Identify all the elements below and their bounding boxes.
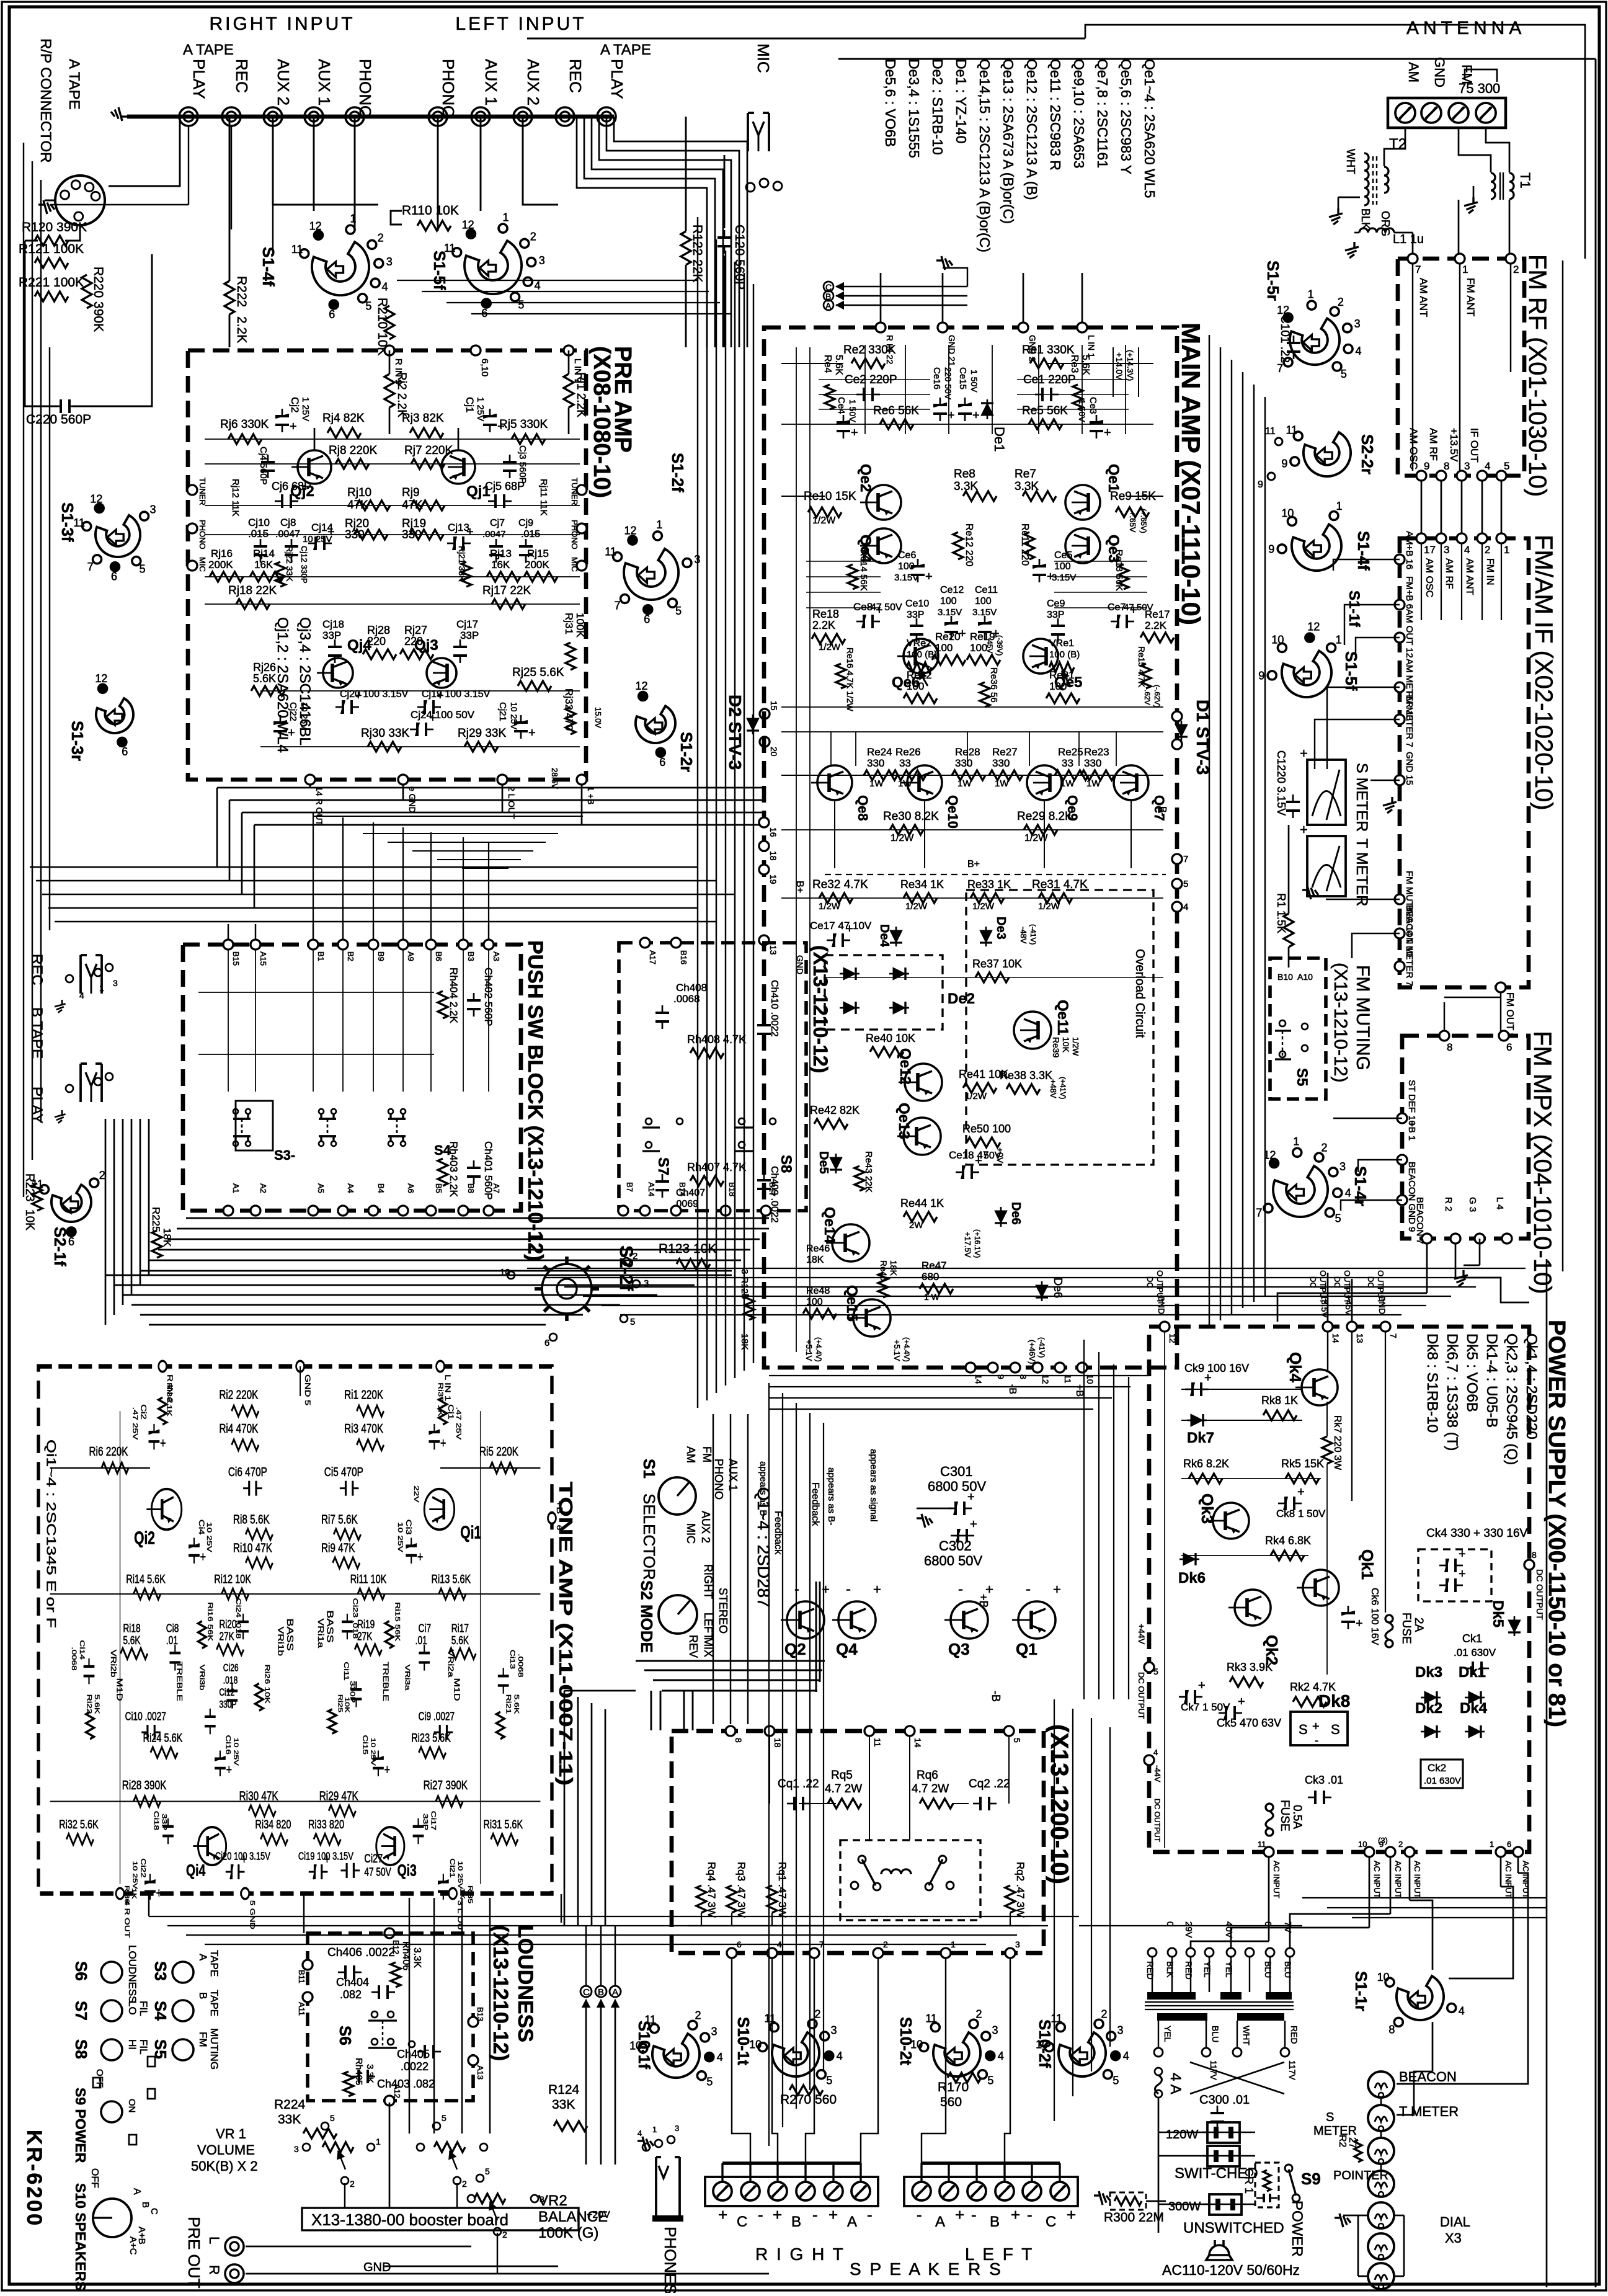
- svg-text:-: -: [958, 1581, 963, 1598]
- svg-text:Ri15 56K: Ri15 56K: [394, 1602, 402, 1641]
- svg-text:S6: S6: [72, 1961, 91, 1981]
- svg-text:S8: S8: [778, 1155, 794, 1173]
- svg-text:R2: R2: [1337, 2135, 1348, 2148]
- svg-text:Feedback: Feedback: [773, 1511, 783, 1555]
- svg-text:A+C: A+C: [128, 2236, 138, 2255]
- svg-text:TREBLE: TREBLE: [381, 1662, 389, 1701]
- svg-text:100K: 100K: [574, 613, 586, 638]
- svg-text:Ce8: Ce8: [853, 601, 873, 613]
- svg-text:VRi1a: VRi1a: [316, 1618, 325, 1648]
- svg-text:.01: .01: [415, 1634, 427, 1647]
- svg-text:16: 16: [768, 827, 778, 837]
- svg-text:A4: A4: [346, 1183, 355, 1193]
- svg-text:Ri35: Ri35: [467, 1885, 474, 1903]
- svg-text:S: S: [1326, 2111, 1334, 2124]
- svg-text:10: 10: [1377, 1971, 1390, 1983]
- svg-text:Ri21: Ri21: [505, 1694, 513, 1714]
- svg-text:5: 5: [826, 2075, 832, 2087]
- svg-text:Ci3: Ci3: [404, 1520, 412, 1535]
- svg-text:M1D: M1D: [115, 1678, 123, 1701]
- svg-text:Ri17: Ri17: [451, 1622, 469, 1634]
- svg-text:AM OSC: AM OSC: [1408, 428, 1419, 469]
- svg-text:Ck1: Ck1: [1462, 1632, 1482, 1645]
- svg-text:Re30 8.2K: Re30 8.2K: [883, 810, 939, 823]
- svg-text:+: +: [200, 1550, 206, 1565]
- svg-text:+44V: +44V: [1137, 1624, 1147, 1645]
- svg-text:FM+B 6: FM+B 6: [1404, 576, 1415, 609]
- svg-text:+: +: [828, 2205, 838, 2224]
- svg-text:R123 10K: R123 10K: [659, 1242, 716, 1256]
- svg-text:Rj7 220K: Rj7 220K: [404, 444, 453, 457]
- svg-text:Rj17 22K: Rj17 22K: [482, 584, 531, 597]
- svg-text:PHONO: PHONO: [439, 59, 458, 118]
- svg-text:+.65V: +.65V: [1128, 511, 1137, 533]
- svg-text:Rj8 220K: Rj8 220K: [329, 444, 377, 457]
- svg-text:MIC: MIC: [198, 557, 207, 572]
- svg-text:+: +: [1300, 745, 1308, 761]
- svg-text:29V: 29V: [1183, 1921, 1194, 1938]
- svg-text:Ci5 470P: Ci5 470P: [324, 1464, 363, 1479]
- svg-text:+: +: [1238, 1695, 1245, 1709]
- svg-text:FUSE: FUSE: [1278, 1800, 1291, 1831]
- svg-text:+: +: [1204, 1371, 1212, 1385]
- svg-text:S1-4f: S1-4f: [1354, 531, 1373, 571]
- svg-text:33K: 33K: [552, 2098, 575, 2112]
- svg-text:117V: 117V: [1287, 2060, 1297, 2080]
- svg-text:VRi2a: VRi2a: [446, 1650, 455, 1678]
- svg-text:S2 MODE: S2 MODE: [637, 1580, 656, 1653]
- svg-text:S4: S4: [151, 2001, 170, 2021]
- svg-text:+: +: [846, 922, 853, 936]
- svg-text:1/2W: 1/2W: [812, 515, 836, 526]
- svg-text:BASS: BASS: [285, 1618, 296, 1650]
- svg-text:B-: B-: [1157, 806, 1168, 816]
- svg-text:C300 .01: C300 .01: [1199, 2093, 1250, 2107]
- svg-text:MAIN AMP (X07-1110-10): MAIN AMP (X07-1110-10): [1176, 323, 1206, 625]
- svg-text:Qe11: Qe11: [1054, 1000, 1071, 1035]
- svg-text:1W: 1W: [898, 778, 912, 789]
- svg-text:5: 5: [140, 563, 146, 576]
- svg-text:11: 11: [605, 545, 616, 558]
- svg-text:Dk4: Dk4: [1460, 1700, 1488, 1717]
- svg-text:Dk5: Dk5: [1490, 1600, 1506, 1627]
- svg-text:PLAY: PLAY: [608, 59, 626, 99]
- svg-text:FM METER 7: FM METER 7: [1404, 691, 1415, 747]
- svg-text:3: 3: [294, 2144, 299, 2154]
- svg-text:3 L OUT: 3 L OUT: [456, 1900, 464, 1936]
- svg-text:R225: R225: [150, 1207, 162, 1232]
- svg-text:100 (B): 100 (B): [907, 649, 937, 660]
- svg-text:Dk8 : S1RB-10: Dk8 : S1RB-10: [1424, 1333, 1441, 1433]
- svg-text:4: 4: [637, 2129, 642, 2138]
- svg-text:8: 8: [1447, 1041, 1452, 1053]
- svg-text:AM OSC: AM OSC: [1424, 558, 1434, 597]
- svg-text:Re26: Re26: [895, 746, 921, 758]
- svg-text:+B: +B: [977, 1594, 990, 1608]
- svg-text:Rh404 2.2K: Rh404 2.2K: [448, 968, 460, 1023]
- svg-text:+: +: [226, 1763, 232, 1778]
- svg-text:appears as B-: appears as B-: [826, 1467, 837, 1525]
- svg-text:1W: 1W: [1086, 778, 1101, 789]
- svg-text:9: 9: [1258, 669, 1264, 682]
- svg-text:Ri33 820: Ri33 820: [308, 1817, 344, 1831]
- svg-text:R 2: R 2: [1443, 1197, 1454, 1211]
- svg-text:RIGHT INPUT: RIGHT INPUT: [209, 14, 355, 34]
- svg-text:Re29 8.2K: Re29 8.2K: [1017, 810, 1073, 823]
- svg-text:YEL: YEL: [1163, 2026, 1173, 2042]
- svg-text:DC OUTPUT: DC OUTPUT: [1137, 1672, 1146, 1719]
- svg-text:Re12 220: Re12 220: [964, 523, 974, 566]
- svg-text:Re14 56K: Re14 56K: [858, 550, 869, 591]
- svg-text:Ce18 47: Ce18 47: [949, 1149, 988, 1161]
- svg-text:1: 1: [1308, 288, 1314, 300]
- svg-text:Rj9: Rj9: [402, 486, 420, 499]
- svg-text:1/2W: 1/2W: [905, 901, 928, 912]
- svg-text:Re50 100: Re50 100: [962, 1123, 1011, 1135]
- svg-text:VRi2b: VRi2b: [109, 1650, 117, 1678]
- svg-text:2: 2: [1101, 2008, 1108, 2021]
- svg-text:6: 6: [111, 571, 117, 583]
- svg-text:0.5A: 0.5A: [1290, 1805, 1304, 1829]
- svg-text:-.62V: -.62V: [1143, 687, 1152, 705]
- svg-text:Ci16: Ci16: [224, 1735, 233, 1754]
- svg-text:FM MUTING: FM MUTING: [1353, 965, 1373, 1070]
- svg-text:Ri18: Ri18: [123, 1622, 140, 1634]
- svg-text:Ci7: Ci7: [419, 1622, 432, 1634]
- svg-text:Ci8: Ci8: [166, 1622, 179, 1634]
- svg-text:Rj16: Rj16: [211, 548, 233, 559]
- svg-text:12: 12: [462, 218, 474, 231]
- svg-text:BASS: BASS: [325, 1610, 335, 1642]
- svg-text:B13: B13: [476, 2007, 485, 2021]
- svg-text:B TAPE: B TAPE: [29, 1007, 45, 1059]
- svg-text:6: 6: [481, 307, 487, 319]
- svg-text:1K: 1K: [459, 1888, 466, 1899]
- svg-text:Dk3: Dk3: [1415, 1664, 1442, 1681]
- svg-text:S1-1f: S1-1f: [1346, 590, 1362, 628]
- svg-text:Cj7: Cj7: [490, 518, 505, 528]
- svg-text:G 3: G 3: [1467, 1197, 1478, 1212]
- svg-text:Ci26: Ci26: [223, 1663, 239, 1674]
- svg-text:3.15V: 3.15V: [1052, 572, 1076, 583]
- svg-text:(X08-1080-10): (X08-1080-10): [589, 346, 615, 498]
- svg-text:Qe13 : 2SA673 A (B)or(C): Qe13 : 2SA673 A (B)or(C): [1000, 59, 1016, 224]
- svg-text:.01 630V: .01 630V: [1454, 1647, 1496, 1658]
- svg-text:AC INPUT: AC INPUT: [1393, 1861, 1403, 1898]
- svg-text:S1-5r: S1-5r: [1264, 260, 1282, 301]
- svg-text:4: 4: [1459, 2005, 1465, 2017]
- svg-text:11: 11: [873, 1738, 882, 1747]
- svg-text:S10-2t: S10-2t: [897, 2017, 915, 2065]
- svg-text:A2: A2: [259, 1183, 268, 1193]
- svg-text:Ch408: Ch408: [676, 982, 707, 994]
- svg-text:S9 POWER: S9 POWER: [73, 2088, 89, 2163]
- svg-text:S6: S6: [336, 2026, 355, 2045]
- svg-text:Qe15: Qe15: [843, 1285, 860, 1322]
- svg-text:B4: B4: [376, 1183, 386, 1193]
- svg-text:R/P CONNECTOR: R/P CONNECTOR: [37, 38, 54, 162]
- svg-text:RED: RED: [1145, 1961, 1155, 1980]
- svg-text:Rj15: Rj15: [527, 548, 549, 559]
- svg-text:Cj18: Cj18: [322, 618, 344, 630]
- svg-text:A9: A9: [406, 951, 415, 961]
- svg-text:Ci6 470P: Ci6 470P: [228, 1464, 267, 1479]
- svg-text:C: C: [1046, 2214, 1056, 2230]
- svg-text:Ce17 47 10V: Ce17 47 10V: [810, 920, 872, 932]
- svg-text:3.3K: 3.3K: [365, 2064, 375, 2083]
- svg-text:Re38 3.3K: Re38 3.3K: [1000, 1069, 1052, 1082]
- svg-text:A11: A11: [297, 2002, 306, 2016]
- svg-text:3.3K: 3.3K: [1015, 480, 1039, 493]
- svg-text:Dk8: Dk8: [1318, 1691, 1350, 1711]
- svg-text:+: +: [970, 1518, 977, 1531]
- svg-text:Rj5 330K: Rj5 330K: [499, 418, 548, 431]
- svg-text:A12: A12: [393, 2084, 402, 2098]
- svg-text:S3: S3: [151, 1961, 170, 1981]
- svg-text:1/2W: 1/2W: [891, 833, 914, 843]
- svg-text:S10-1t: S10-1t: [734, 2017, 753, 2065]
- svg-text:Qe2: Qe2: [857, 464, 874, 492]
- svg-text:Re42 82K: Re42 82K: [810, 1104, 860, 1116]
- svg-text:1: 1: [376, 2137, 381, 2147]
- svg-text:Ci18: Ci18: [153, 1811, 161, 1830]
- svg-text:R224: R224: [274, 2098, 306, 2112]
- svg-text:11: 11: [1265, 426, 1276, 437]
- svg-text:Re32 4.7K: Re32 4.7K: [812, 878, 868, 891]
- svg-text:(+14.3V): (+14.3V): [1126, 350, 1135, 381]
- svg-text:Rk3 3.9K: Rk3 3.9K: [1227, 1661, 1273, 1673]
- svg-text:Ck2: Ck2: [1428, 1762, 1446, 1774]
- svg-text:Rq2 .47 3W: Rq2 .47 3W: [1015, 1862, 1026, 1918]
- svg-text:+: +: [1297, 1485, 1305, 1499]
- svg-text:7: 7: [1277, 362, 1283, 375]
- svg-text:Q1: Q1: [1016, 1640, 1037, 1658]
- svg-text:+: +: [528, 726, 536, 740]
- svg-text:Ci9 .0027: Ci9 .0027: [419, 1710, 455, 1722]
- svg-text:VOLUME: VOLUME: [197, 2142, 255, 2158]
- svg-text:GND: GND: [363, 2261, 391, 2274]
- svg-text:B: B: [197, 1992, 209, 1999]
- svg-text:Ri31 5.6K: Ri31 5.6K: [483, 1817, 523, 1831]
- svg-text:DC OUTPUT: DC OUTPUT: [1153, 1799, 1162, 1843]
- svg-text:A: A: [847, 2214, 857, 2230]
- svg-text:18K: 18K: [806, 1255, 824, 1265]
- svg-text:B16: B16: [679, 950, 688, 964]
- svg-text:Ri19: Ri19: [357, 1618, 375, 1631]
- svg-text:Rj3 82K: Rj3 82K: [402, 412, 444, 425]
- svg-text:4: 4: [1345, 1187, 1351, 1199]
- svg-text:Ce15: Ce15: [957, 367, 968, 389]
- svg-text:Re1 330K: Re1 330K: [1022, 344, 1075, 357]
- svg-text:2 L OUT: 2 L OUT: [507, 786, 517, 819]
- svg-text:FM RF (X01-1030-10): FM RF (X01-1030-10): [1524, 254, 1551, 497]
- svg-text:10 25V: 10 25V: [233, 1738, 240, 1766]
- svg-text:1: 1: [1336, 633, 1342, 646]
- svg-text:OFF: OFF: [89, 2168, 100, 2188]
- svg-text:PRE OUT: PRE OUT: [185, 2217, 203, 2289]
- svg-text:Qe12 : 2SC1213 A (B): Qe12 : 2SC1213 A (B): [1024, 59, 1040, 200]
- svg-text:Rj28: Rj28: [367, 624, 390, 636]
- svg-text:Qe5: Qe5: [1054, 674, 1082, 691]
- svg-text:3.3K: 3.3K: [412, 1947, 422, 1968]
- svg-text:Qe1: Qe1: [1105, 464, 1122, 492]
- svg-text:+: +: [975, 1154, 982, 1168]
- svg-text:6800 50V: 6800 50V: [924, 1553, 983, 1568]
- svg-text:T1: T1: [1517, 172, 1533, 189]
- svg-text:+48V: +48V: [1049, 1079, 1058, 1098]
- svg-text:Cj1: Cj1: [464, 397, 476, 413]
- svg-text:1 50V: 1 50V: [969, 370, 979, 393]
- svg-text:5.6K: 5.6K: [451, 1634, 469, 1647]
- svg-text:STEREO: STEREO: [717, 1588, 729, 1634]
- svg-text:1W: 1W: [995, 778, 1009, 789]
- svg-text:B3: B3: [466, 951, 476, 961]
- svg-text:BLU: BLU: [1263, 1961, 1273, 1978]
- svg-text:5.6K: 5.6K: [94, 1694, 102, 1714]
- svg-text:S1-4f: S1-4f: [259, 247, 278, 287]
- svg-text:Re31 4.7K: Re31 4.7K: [1032, 878, 1088, 891]
- svg-text:+: +: [497, 420, 505, 434]
- svg-text:Ri12 10K: Ri12 10K: [214, 1572, 251, 1586]
- svg-text:1/2W: 1/2W: [819, 642, 841, 652]
- svg-text:33P: 33P: [322, 630, 341, 641]
- svg-text:6: 6: [659, 756, 665, 768]
- svg-text:10: 10: [1271, 633, 1284, 646]
- svg-text:Ce11: Ce11: [975, 585, 998, 595]
- svg-text:C: C: [583, 1987, 590, 1998]
- svg-text:A14: A14: [647, 1182, 656, 1196]
- svg-text:A5: A5: [316, 1183, 326, 1193]
- svg-text:M1D: M1D: [452, 1678, 461, 1701]
- svg-text:5: 5: [442, 2113, 446, 2123]
- svg-text:4: 4: [382, 280, 388, 293]
- svg-text:Ri30 47K: Ri30 47K: [239, 1788, 278, 1803]
- svg-text:1 50V: 1 50V: [848, 399, 858, 422]
- svg-text:5: 5: [630, 1317, 635, 1327]
- svg-text:+5.1V: +5.1V: [804, 1340, 814, 1361]
- svg-text:B17: B17: [768, 1182, 777, 1196]
- svg-text:2: 2: [815, 2008, 821, 2021]
- svg-text:(X13-1210-12): (X13-1210-12): [1330, 963, 1351, 1082]
- svg-text:5: 5: [1113, 2075, 1119, 2087]
- svg-text:A17: A17: [648, 950, 657, 964]
- svg-text:10 25V: 10 25V: [205, 1522, 213, 1552]
- svg-text:+: +: [440, 1436, 446, 1451]
- svg-text:AUX 1: AUX 1: [315, 59, 334, 105]
- svg-text:De6: De6: [1052, 1278, 1064, 1298]
- svg-text:5: 5: [485, 2166, 490, 2176]
- svg-text:Ri20: Ri20: [219, 1618, 236, 1631]
- svg-text:33: 33: [1062, 757, 1073, 769]
- svg-text:Re34 1K: Re34 1K: [900, 878, 944, 891]
- svg-text:R222: R222: [234, 276, 249, 307]
- svg-text:+B: +B: [555, 1500, 564, 1514]
- svg-text:S P E A K E R S: S P E A K E R S: [850, 2259, 1003, 2279]
- svg-text:AM RF: AM RF: [1428, 428, 1439, 461]
- svg-text:Ri27 390K: Ri27 390K: [424, 1777, 468, 1792]
- svg-text:B: B: [990, 2214, 1000, 2230]
- svg-text:AM ANT: AM ANT: [1418, 278, 1429, 317]
- svg-text:Qi4: Qi4: [186, 1861, 205, 1880]
- svg-text:X3: X3: [1445, 2230, 1462, 2246]
- svg-text:S2-1f: S2-1f: [51, 1227, 69, 1266]
- svg-text:PLAY: PLAY: [190, 59, 208, 99]
- svg-text:1 +B: 1 +B: [586, 786, 596, 804]
- svg-text:50K(B) X 2: 50K(B) X 2: [191, 2158, 258, 2174]
- svg-text:AM: AM: [1406, 62, 1421, 82]
- svg-text:4: 4: [1153, 1748, 1158, 1757]
- svg-text:Rq4 .47 3W: Rq4 .47 3W: [706, 1862, 717, 1918]
- svg-text:Ri24 5.6K: Ri24 5.6K: [143, 1730, 183, 1745]
- svg-text:PHONO: PHONO: [356, 59, 375, 118]
- svg-text:Ri29 47K: Ri29 47K: [319, 1788, 358, 1803]
- svg-text:1W: 1W: [957, 778, 972, 789]
- svg-text:3: 3: [113, 978, 118, 988]
- svg-text:FM: FM: [701, 1446, 713, 1462]
- svg-text:MIC: MIC: [754, 43, 773, 73]
- svg-text:Ri34 820: Ri34 820: [255, 1817, 291, 1831]
- svg-text:Cj4 560P: Cj4 560P: [258, 447, 269, 485]
- svg-text:Qj3: Qj3: [414, 637, 438, 654]
- svg-text:6: 6: [122, 745, 128, 758]
- svg-text:Overload Circuit: Overload Circuit: [1133, 949, 1147, 1038]
- svg-text:Rj25 5.6K: Rj25 5.6K: [512, 666, 564, 679]
- svg-text:(-41V): (-41V): [1037, 1337, 1046, 1358]
- svg-text:Rj29 33K: Rj29 33K: [458, 727, 506, 740]
- svg-text:SELECTOR: SELECTOR: [640, 1493, 659, 1580]
- svg-text:5.6K: 5.6K: [253, 672, 276, 685]
- svg-text:2: 2: [530, 231, 536, 243]
- svg-text:1W: 1W: [1060, 778, 1075, 789]
- svg-text:1/2W: 1/2W: [1038, 901, 1060, 912]
- svg-text:10K: 10K: [23, 1209, 36, 1230]
- svg-text:BLU: BLU: [1283, 1961, 1293, 1978]
- svg-text:120W: 120W: [1166, 2128, 1198, 2142]
- svg-text:C101 .22: C101 .22: [1278, 315, 1291, 363]
- svg-text:Ci1: Ci1: [446, 1404, 455, 1420]
- svg-text:PHONES: PHONES: [661, 2227, 680, 2293]
- svg-text:3: 3: [1354, 318, 1361, 330]
- svg-text:Re8: Re8: [954, 468, 975, 481]
- svg-text:+: +: [1300, 822, 1308, 837]
- svg-text:5: 5: [1183, 879, 1188, 889]
- svg-text:+: +: [1053, 1582, 1061, 1597]
- svg-text:Qi3: Qi3: [398, 1861, 417, 1880]
- svg-text:Ci22: Ci22: [140, 1858, 148, 1877]
- svg-text:FM IN: FM IN: [1485, 558, 1495, 585]
- svg-text:R120 390K: R120 390K: [22, 220, 87, 234]
- svg-text:R220 390K: R220 390K: [91, 267, 105, 332]
- svg-text:WHT: WHT: [1344, 149, 1357, 174]
- svg-text:FIL: FIL: [138, 2001, 149, 2016]
- svg-text:FUSE: FUSE: [1400, 1613, 1413, 1644]
- svg-text:Ri5 220K: Ri5 220K: [479, 1444, 518, 1459]
- svg-text:+: +: [1011, 2205, 1020, 2224]
- svg-text:+: +: [1130, 603, 1137, 617]
- svg-text:A TAPE: A TAPE: [66, 59, 82, 110]
- svg-text:10: 10: [1358, 1840, 1367, 1849]
- svg-text:200K: 200K: [208, 559, 233, 571]
- svg-text:6: 6: [556, 1525, 564, 1531]
- svg-text:Ci13: Ci13: [509, 1650, 517, 1669]
- svg-text:20: 20: [769, 747, 779, 757]
- svg-text:.0068: .0068: [71, 1647, 79, 1670]
- svg-text:De3,4 : 1S1555: De3,4 : 1S1555: [906, 59, 922, 158]
- svg-text:Re6 56K: Re6 56K: [873, 404, 919, 417]
- svg-text:Re33 1K: Re33 1K: [967, 878, 1011, 891]
- svg-text:1/2W: 1/2W: [819, 901, 841, 912]
- svg-text:330: 330: [992, 757, 1010, 769]
